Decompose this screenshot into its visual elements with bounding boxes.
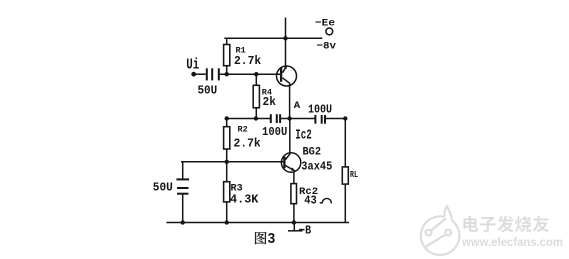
- resistor R2: [226, 119, 228, 127]
- wire Q1 base row: [220, 73, 281, 75]
- svg-text:Ic2: Ic2: [295, 128, 312, 144]
- node Rc2 bottom junction: [292, 220, 296, 224]
- svg-text:B: B: [305, 225, 311, 238]
- wire top rail: [224, 37, 322, 39]
- svg-text:50U: 50U: [198, 85, 218, 98]
- capacitor C3 50U vertical plates: [182, 162, 184, 179]
- capacitor C1 100U plates: [270, 114, 272, 123]
- wire Q1 emitter to node A: [289, 84, 291, 119]
- svg-text:43: 43: [304, 194, 317, 208]
- node R4 bottom junction: [254, 116, 258, 120]
- svg-text:−Ee: −Ee: [315, 18, 335, 30]
- watermark logo pads and traces: [424, 218, 451, 248]
- node base row R1 junction: [225, 72, 229, 76]
- wire BG2 emitter to Rc2: [293, 172, 295, 184]
- svg-text:3ax45: 3ax45: [301, 161, 332, 174]
- node R3 bottom junction: [225, 220, 229, 224]
- capacitor Cin 50U plates: [206, 68, 208, 80]
- svg-text:−8v: −8v: [317, 41, 337, 53]
- node C3 bottom junction: [181, 220, 185, 224]
- svg-text:R2: R2: [238, 124, 248, 134]
- svg-text:2k: 2k: [263, 95, 276, 109]
- transistor Q1: [277, 66, 297, 86]
- node base row R2R3 junction: [225, 160, 229, 164]
- svg-text:RL: RL: [350, 169, 358, 180]
- label figure caption: [255, 232, 266, 244]
- svg-text:100U: 100U: [262, 126, 287, 139]
- watermark text elecfans chinese: [463, 216, 478, 232]
- svg-text:3: 3: [267, 231, 275, 248]
- capacitor C2 100U plates: [314, 115, 316, 124]
- svg-text:BG2: BG2: [303, 146, 322, 158]
- label ohm symbol: [320, 198, 332, 202]
- node RL top junction: [343, 116, 347, 120]
- svg-text:4.3K: 4.3K: [230, 193, 259, 207]
- wire Q1 collector column and supply stub: [285, 18, 287, 68]
- svg-text:www.elecfans.com: www.elecfans.com: [461, 235, 563, 249]
- resistor R1: [226, 38, 228, 44]
- node R2 top junction: [225, 116, 229, 120]
- svg-text:A: A: [294, 101, 300, 112]
- watermark logo flame: [445, 206, 452, 220]
- node B terminal: [293, 223, 295, 231]
- resistor R3: [226, 162, 228, 182]
- resistor RL: [344, 119, 346, 167]
- transistor BG2: [281, 153, 300, 172]
- wire node A row left: [227, 118, 270, 120]
- svg-text:2.7k: 2.7k: [234, 54, 261, 68]
- wire node A to BG2 collector: [289, 119, 291, 154]
- svg-text:50U: 50U: [153, 182, 173, 195]
- svg-text:Ui: Ui: [186, 58, 199, 74]
- resistor R4: [255, 74, 257, 85]
- node base row R4 junction: [254, 72, 258, 76]
- wire node A middle: [281, 118, 315, 120]
- svg-text:100U: 100U: [308, 104, 332, 117]
- node junction top rail: [283, 36, 287, 40]
- wire to RL column: [326, 118, 346, 120]
- svg-text:2.7k: 2.7k: [234, 137, 261, 151]
- wire bottom rail: [166, 222, 349, 224]
- resistor Rc2: [291, 184, 297, 204]
- watermark logo ring: [421, 216, 460, 255]
- wire BG2 base row: [181, 161, 284, 163]
- node A: [287, 116, 291, 120]
- wire input: [194, 73, 206, 75]
